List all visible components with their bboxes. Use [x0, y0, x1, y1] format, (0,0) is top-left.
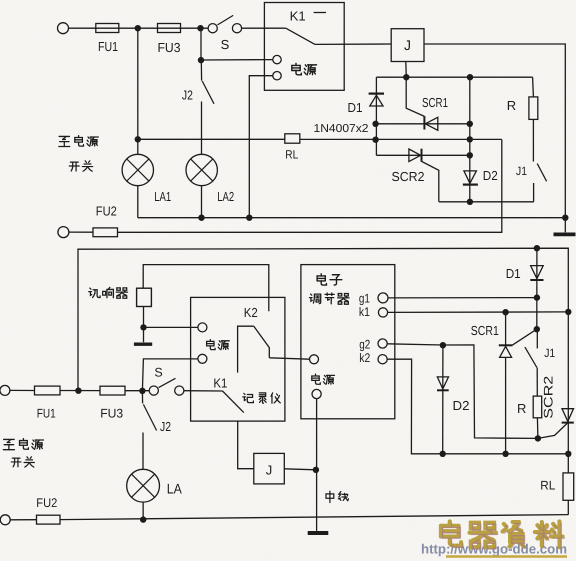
label FU2 (upper): [96, 204, 117, 219]
label k2: [359, 351, 370, 365]
svg-text:J1: J1: [544, 346, 555, 360]
wire: J2 contact (lower): [141, 391, 143, 404]
svg-text:FU3: FU3: [100, 407, 123, 421]
svg-text:RL: RL: [285, 148, 298, 162]
svg-text:J1: J1: [516, 164, 527, 178]
resistor RL (upper): [285, 134, 300, 143]
diode D1 (upper): [369, 94, 384, 106]
svg-text:J: J: [404, 37, 411, 53]
label J2 (upper): [182, 88, 193, 103]
terminal k1: [378, 308, 387, 317]
junction: bottom bus / right rail: [565, 451, 571, 457]
box: power source with K1 contact: [264, 3, 344, 91]
wire: SCR2 gate to bottom line: [422, 162, 439, 202]
svg-text:FU1: FU1: [37, 407, 56, 421]
switch K1 blade (lower): [223, 391, 244, 413]
label J2 (lower): [160, 419, 171, 434]
svg-text:S: S: [154, 366, 162, 380]
junction: lower top rail / D1: [534, 245, 540, 251]
watermark: url: [421, 542, 567, 557]
label D2 (upper): [483, 168, 498, 183]
box: electronic regulator: [301, 265, 395, 419]
wire: bridge bottom line: [439, 201, 534, 203]
label FU1 (lower): [37, 407, 56, 421]
wire: lower top rail: [78, 248, 568, 391]
label 1N4007x2: [314, 123, 369, 135]
box: recorder (jiluyi): [191, 297, 285, 421]
thyristor SCR2 (lower): [562, 409, 574, 423]
switch K2 post: [238, 326, 254, 372]
junction: right rail / lamp rail: [562, 215, 568, 221]
svg-text:S: S: [221, 37, 230, 52]
diode D2 (upper): [463, 171, 478, 185]
relay coil J (lower): [254, 453, 284, 484]
svg-text:J2: J2: [182, 88, 193, 103]
label tiaojieqi: [310, 293, 350, 304]
label D1 (lower): [506, 266, 521, 281]
label neutral line: [326, 491, 348, 502]
svg-text:LA: LA: [167, 481, 183, 497]
junction: main line / J2 branch (lower): [139, 388, 145, 394]
terminal k2: [378, 355, 387, 364]
label RL (lower): [540, 479, 555, 493]
wire: buzzer to recorder: [143, 307, 145, 328]
wire: J1 contact to bottom line: [533, 183, 535, 202]
wire: top rail to R: [532, 77, 535, 97]
thyristor SCR1 (upper): [424, 116, 437, 130]
wire: J2 contact: [200, 60, 202, 81]
junction: top rail / right bridge: [467, 74, 473, 80]
junction: SCR1 line left: [372, 121, 378, 127]
label recorder: [243, 393, 280, 403]
svg-text:SCR2: SCR2: [392, 169, 425, 184]
wire: neutral to FU2: [69, 231, 93, 233]
terminal: recorder power 2: [198, 354, 207, 363]
terminal: power box upper: [273, 55, 281, 63]
diode D1 (lower): [530, 248, 543, 329]
junction: buzzer / recorder power: [140, 324, 146, 330]
label RL (upper): [285, 148, 298, 162]
terminal: lower line input: [0, 385, 10, 395]
wire: SCR1 gate (lower): [513, 329, 537, 345]
terminal: regulator power 1: [310, 355, 319, 364]
svg-text:FU1: FU1: [98, 39, 118, 54]
label J1 (upper): [516, 164, 527, 178]
svg-text:k1: k1: [359, 305, 370, 319]
junction: top rail / J2 branch: [197, 25, 203, 31]
wire: RL line right: [300, 138, 502, 140]
label SCR2 (upper): [392, 169, 425, 184]
label R (lower): [517, 401, 526, 416]
fuse FU3: [158, 24, 181, 33]
label FU1: [98, 39, 118, 54]
terminal: upper neutral input: [58, 227, 69, 238]
junction: g1 / D1 (lower): [534, 294, 540, 300]
wire: R to bottom line (lower): [536, 418, 539, 439]
wire: regulator power to ground: [316, 399, 318, 531]
junction: SCR1 line right: [467, 121, 473, 127]
wire: RL to bottom rail: [567, 500, 569, 515]
resistor R (upper): [529, 97, 538, 120]
wire: lower right rail: [567, 312, 569, 473]
wire: J2 junction to power box: [201, 59, 273, 61]
label J1 (lower): [544, 346, 555, 360]
watermark: dianqi ziliao: [441, 521, 564, 549]
label g2: [359, 338, 370, 352]
label buzzer: [89, 287, 128, 298]
label S (upper): [221, 37, 230, 52]
svg-text:J: J: [266, 463, 273, 478]
svg-text:g2: g2: [359, 338, 370, 352]
wire: K2 to regulator power: [269, 358, 309, 359]
wire: buzzer to K2 contact: [143, 265, 269, 312]
label J (lower): [266, 463, 273, 478]
terminal g2: [378, 339, 387, 348]
svg-text:K2: K2: [244, 305, 258, 320]
label: to power switch (lower): [3, 439, 43, 467]
label D2 (lower): [453, 398, 470, 413]
label K1 (lower): [213, 376, 227, 391]
junction: bottom line / right bridge: [467, 199, 473, 205]
svg-text:FU2: FU2: [96, 204, 117, 219]
label SCR1 (lower): [471, 323, 499, 338]
label dianyuan (upper box): [292, 63, 317, 75]
thyristor SCR2 (upper): [409, 149, 422, 162]
wire: g1 to D1: [388, 297, 537, 299]
svg-text:k2: k2: [359, 351, 370, 365]
resistor R (lower): [533, 396, 542, 418]
ground (upper right): [554, 218, 576, 235]
svg-text:K1: K1: [290, 9, 306, 24]
terminal: power box lower: [273, 72, 281, 80]
junction: D1 / J1 / SCR1 gate: [534, 326, 540, 332]
switch J1 (lower): [525, 331, 537, 396]
label J (upper): [404, 37, 411, 53]
diode D2 (lower): [437, 345, 449, 454]
resistor RL (lower): [563, 473, 574, 500]
svg-text:R: R: [517, 401, 526, 416]
wire: LA1 branch vertical: [137, 28, 139, 154]
svg-text:D1: D1: [506, 266, 521, 281]
wire: lower bottom rail: [60, 515, 568, 520]
fuse FU2 (lower): [37, 515, 61, 524]
svg-text:FU2: FU2: [36, 496, 57, 510]
wire: g2 line to SCR2 gate: [387, 344, 568, 439]
wire: J2 branch upper: [200, 28, 202, 60]
svg-text:FU3: FU3: [158, 40, 181, 55]
wire: dash after K1: [314, 12, 326, 14]
wire: K1 to relay J: [315, 43, 391, 45]
junction: R / gate line: [535, 435, 541, 441]
terminal: lower neutral input: [0, 515, 10, 525]
svg-text:SCR2: SCR2: [541, 376, 555, 419]
wire: SCR1 gate: [406, 77, 424, 116]
wire: input to FU1: [10, 389, 35, 391]
wire: relay J to right rail: [424, 44, 565, 218]
wire: relay J to bridge: [405, 62, 408, 78]
svg-text:1N4007x2: 1N4007x2: [314, 123, 369, 135]
junction: top rail / LA1 branch: [135, 25, 141, 31]
junction: RL line / right bridge: [467, 136, 473, 142]
label dianyuan (recorder): [207, 339, 230, 349]
label k1: [359, 305, 370, 319]
junction: g2 / D2 (lower): [440, 342, 446, 348]
svg-text:LA2: LA2: [217, 189, 234, 204]
terminal: recorder power 1: [198, 323, 207, 332]
svg-text:g1: g1: [359, 292, 370, 306]
wire: bridge top rail: [376, 76, 532, 78]
lamp LA: [127, 469, 160, 502]
label D1 (upper): [348, 100, 363, 115]
label dianzi: [317, 274, 342, 285]
wire: J2 to LA: [142, 433, 144, 470]
svg-text:RL: RL: [540, 479, 555, 493]
wire: relay J to neutral node: [284, 469, 316, 470]
label FU3 (lower): [100, 407, 123, 421]
lamp LA1: [122, 154, 153, 185]
junction: bottom bus / D2: [440, 451, 446, 457]
wire: lamp return rail: [138, 217, 566, 219]
wire: recorder to relay J (lower): [238, 421, 254, 469]
wire: SCR2 line: [376, 154, 469, 156]
svg-text:D2: D2: [483, 168, 498, 183]
wire: power box lower terminal down to lamp rail: [249, 76, 272, 218]
svg-text:R: R: [507, 98, 516, 113]
buzzer HA: [137, 288, 152, 306]
label FU3: [158, 40, 181, 55]
terminal: regulator power 2: [312, 389, 321, 398]
wire: FU3 to S: [125, 390, 149, 392]
switch S (upper): [208, 15, 242, 32]
label SCR1 (upper): [422, 95, 448, 110]
wire: FU1 to FU3: [60, 390, 100, 392]
svg-text:D2: D2: [453, 398, 470, 413]
junction: J / SCR1 gate: [403, 74, 409, 80]
label LA1: [154, 189, 171, 204]
svg-text:SCR1: SCR1: [471, 323, 499, 338]
ground (neutral): [308, 531, 329, 535]
junction: power-box wire on lamp rail: [246, 215, 252, 221]
switch S (lower): [149, 378, 184, 395]
wire: RL line left: [138, 138, 285, 140]
ground (buzzer): [134, 327, 152, 344]
label: to power switch (upper): [59, 136, 98, 172]
label LA2: [217, 189, 234, 204]
fuse FU3 (lower): [100, 386, 125, 395]
fuse FU1 (lower): [35, 386, 61, 395]
terminal g1: [378, 293, 388, 303]
junction: bottom bus / SCR1: [502, 451, 508, 457]
wire: LA to bottom rail: [142, 502, 144, 519]
svg-text:K1: K1: [213, 376, 227, 391]
junction: k1 / SCR1 (lower): [502, 309, 508, 315]
switch K1 blade: [286, 28, 315, 44]
label g1: [359, 292, 370, 306]
wire: SCR1 line: [376, 123, 469, 125]
junction: neutral node: [313, 467, 319, 473]
junction: RL line / left bridge: [372, 137, 378, 143]
wire: bridge right vertical: [469, 77, 471, 202]
junction: k1 / right rail: [565, 309, 571, 315]
relay coil J (upper): [391, 29, 424, 62]
label K2: [244, 305, 258, 320]
wire: R to J1: [532, 119, 534, 161]
switch K2 blade: [254, 326, 269, 358]
svg-text:J2: J2: [160, 419, 171, 434]
wire: S to K1 (lower): [184, 390, 223, 392]
wire: input to FU2 (lower): [10, 519, 36, 521]
wire: J2 to LA2: [201, 102, 203, 155]
junction: lower rail / main line: [75, 388, 81, 394]
label FU2 (lower): [36, 496, 57, 510]
lamp LA2: [186, 154, 217, 185]
wire: S to K1 contact: [242, 27, 286, 29]
label SCR2 (lower): [541, 376, 555, 419]
junction: LA / bottom rail: [140, 516, 146, 522]
label K1 (upper): [290, 9, 306, 24]
label LA: [167, 481, 183, 497]
fuse FU1: [96, 24, 119, 33]
switch J2 blade (upper): [202, 81, 214, 104]
junction: LA1 branch / RL line: [135, 136, 141, 142]
svg-text:D1: D1: [348, 100, 363, 115]
junction: LA2 on lamp rail: [198, 215, 204, 221]
svg-text:SCR1: SCR1: [422, 95, 448, 110]
watermark: underline: [446, 555, 567, 557]
switch J1 blade (upper): [537, 164, 546, 182]
wire: k2 line to bottom bus: [387, 359, 568, 454]
label S (lower): [154, 366, 162, 380]
svg-text:LA1: LA1: [154, 189, 171, 204]
switch J2 blade (lower): [143, 404, 156, 430]
wire: k1 line: [388, 311, 569, 314]
wire: upper top rail: [69, 27, 209, 29]
terminal: upper line input: [58, 23, 69, 34]
label R (upper): [507, 98, 516, 113]
wire: LA2 to lamp rail: [201, 186, 203, 218]
wire: FU2 rail to riser: [118, 140, 502, 233]
junction: J2 branch / power box wire: [198, 57, 204, 63]
wire: to recorder power 1: [144, 326, 198, 328]
wire: recorder power 2 to main line: [142, 359, 198, 391]
fuse FU2 (upper): [93, 228, 118, 237]
thyristor SCR1 (lower): [499, 312, 513, 454]
label dianyuan (regulator): [312, 374, 335, 384]
junction: SCR2 line right: [467, 152, 473, 158]
wire: LA1 to lamp rail: [137, 186, 139, 218]
wire: bridge left vertical: [375, 77, 377, 155]
